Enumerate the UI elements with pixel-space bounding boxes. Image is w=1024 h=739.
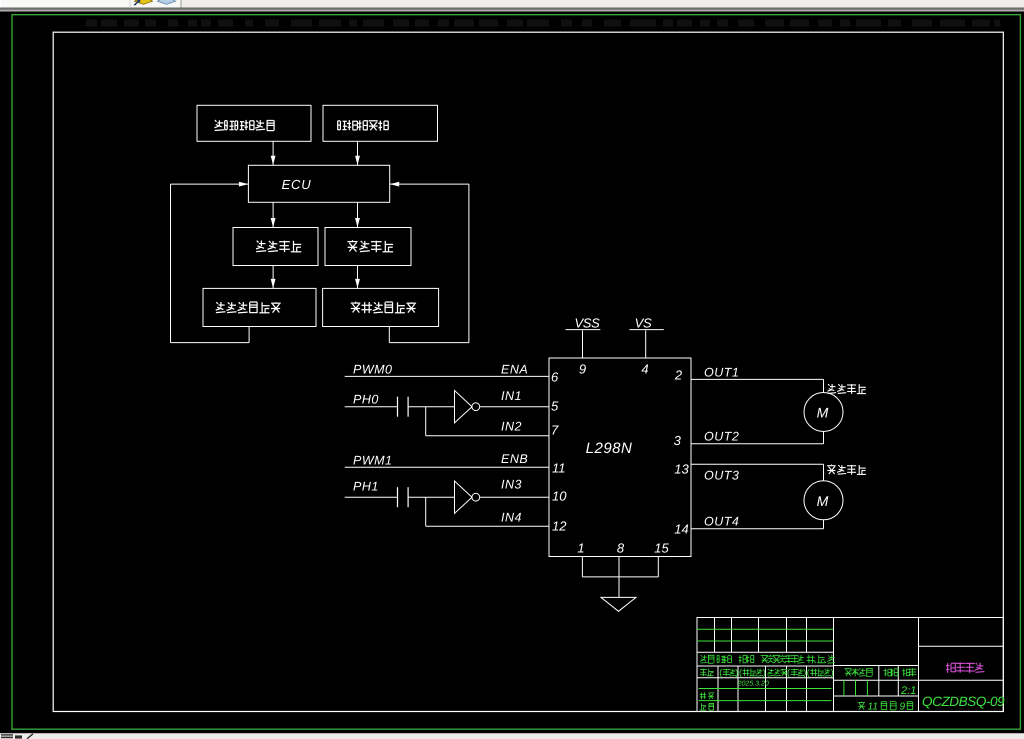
svg-text:2: 2 <box>674 368 683 383</box>
svg-text:OUT4: OUT4 <box>704 514 739 528</box>
svg-text:QCZDBSQ-09: QCZDBSQ-09 <box>922 694 1005 709</box>
svg-text:ECU: ECU <box>282 177 312 192</box>
svg-text:7: 7 <box>551 423 559 438</box>
svg-text:IN4: IN4 <box>501 510 522 524</box>
svg-text:10: 10 <box>552 489 567 504</box>
svg-text:2:1: 2:1 <box>900 685 916 697</box>
svg-text:8: 8 <box>617 541 625 556</box>
svg-text:IN1: IN1 <box>501 389 522 403</box>
svg-text:M: M <box>817 493 829 509</box>
svg-text:(: ( <box>719 668 722 678</box>
svg-text:): ) <box>735 668 738 678</box>
svg-text:(: ( <box>807 668 810 678</box>
svg-text:IN3: IN3 <box>501 477 522 491</box>
svg-text:VSS: VSS <box>574 315 600 330</box>
svg-text:13: 13 <box>674 462 689 477</box>
svg-text:IN2: IN2 <box>501 419 522 433</box>
svg-text:): ) <box>831 668 834 678</box>
svg-text:12: 12 <box>552 519 567 534</box>
svg-text:5: 5 <box>551 399 559 414</box>
svg-text:): ) <box>763 668 766 678</box>
svg-text:9: 9 <box>579 362 586 377</box>
svg-text:OUT2: OUT2 <box>704 430 739 444</box>
svg-text:M: M <box>817 405 829 421</box>
svg-text:2025.3.20: 2025.3.20 <box>737 680 769 687</box>
svg-text:PWM1: PWM1 <box>353 453 393 467</box>
svg-text:(: ( <box>787 668 790 678</box>
svg-text:L298N: L298N <box>586 440 633 457</box>
svg-text:4: 4 <box>641 362 648 377</box>
svg-text:9: 9 <box>900 702 906 713</box>
svg-text:14: 14 <box>674 522 688 537</box>
svg-text:VS: VS <box>635 315 652 330</box>
svg-text:OUT3: OUT3 <box>704 468 739 482</box>
svg-text:ENA: ENA <box>501 362 528 376</box>
svg-text:15: 15 <box>654 541 669 556</box>
svg-text:PH0: PH0 <box>353 393 379 407</box>
svg-text:PWM0: PWM0 <box>353 362 393 376</box>
svg-text:(: ( <box>739 668 742 678</box>
svg-text:1: 1 <box>577 541 584 556</box>
svg-text:3: 3 <box>674 433 682 448</box>
svg-text:11: 11 <box>868 702 878 713</box>
svg-text:ENB: ENB <box>501 452 528 466</box>
svg-text:6: 6 <box>551 370 559 385</box>
svg-text:11: 11 <box>552 461 566 476</box>
svg-text:OUT1: OUT1 <box>704 365 739 379</box>
svg-text:PH1: PH1 <box>353 480 379 494</box>
